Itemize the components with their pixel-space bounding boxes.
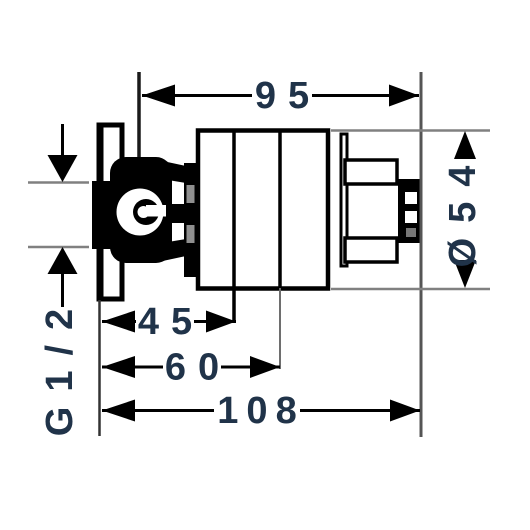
dim 45 text bbox=[136, 306, 194, 337]
cup bottom step bbox=[345, 238, 397, 262]
spindle ridged tip bbox=[398, 179, 420, 243]
svg-text:60: 60 bbox=[165, 347, 231, 389]
dim 95 right arrow bbox=[389, 85, 419, 107]
valve axle bbox=[156, 204, 199, 223]
dim Ø54 top extension bbox=[331, 129, 490, 132]
dim 95 left extension line bbox=[137, 72, 141, 157]
dim 95/108 right extension line bbox=[420, 72, 423, 437]
svg-text:95: 95 bbox=[255, 75, 321, 117]
dim 108 text bbox=[214, 395, 300, 426]
valve spindle C-shape bbox=[133, 199, 159, 225]
valve bottom arm bbox=[158, 239, 186, 262]
dim 108 line bbox=[102, 409, 420, 412]
flange plate bbox=[341, 134, 347, 266]
valve bore circle bbox=[117, 189, 164, 236]
svg-text:45: 45 bbox=[138, 301, 204, 343]
G1/2 port bbox=[92, 181, 122, 249]
wall plate left edge thick bbox=[97, 123, 104, 302]
valve body bbox=[110, 157, 172, 263]
dim Ø54 top arrow bbox=[454, 131, 476, 159]
dim G1/2 top extension line bbox=[28, 181, 89, 184]
adapter bracket bbox=[184, 163, 197, 277]
dim 60 text bbox=[163, 352, 221, 383]
valve top arm bbox=[158, 160, 186, 183]
dim 45 right arrow bbox=[206, 311, 236, 333]
dim 45 left arrow bbox=[102, 311, 135, 333]
dim G1/2 down arrow bbox=[48, 155, 78, 182]
dim Ø54 bottom arrow bbox=[454, 260, 476, 288]
svg-text:108: 108 bbox=[217, 390, 304, 432]
dim G1/2 lower leader bbox=[61, 274, 64, 307]
wall plate bbox=[100, 125, 122, 299]
body internal line at 60 bbox=[278, 130, 282, 288]
dim 60 right arrow bbox=[250, 356, 280, 378]
main body bbox=[198, 131, 328, 289]
dim 60 left arrow bbox=[102, 356, 135, 378]
svg-text:Ø54: Ø54 bbox=[442, 151, 484, 268]
dim Ø54 bottom extension bbox=[331, 288, 490, 291]
dim 95 line bbox=[142, 94, 419, 97]
dim 45 line bbox=[102, 320, 236, 323]
dim 108 left arrow bbox=[102, 400, 135, 422]
dim G1/2 upper leader bbox=[61, 124, 64, 158]
dim 108 right arrow bbox=[390, 400, 420, 422]
bottom dims left datum line bbox=[98, 300, 101, 436]
dim G1/2 bottom extension line bbox=[28, 246, 89, 249]
svg-text:G1/2: G1/2 bbox=[39, 294, 81, 436]
dim G1/2 up arrow bbox=[48, 247, 78, 274]
body internal line at 45 bbox=[232, 130, 236, 323]
dim 95 text bbox=[252, 80, 312, 111]
extension of 60 line bbox=[279, 288, 281, 369]
cup top step bbox=[345, 160, 397, 184]
dim 60 line bbox=[102, 366, 280, 369]
dim 95 left arrow bbox=[142, 85, 175, 107]
